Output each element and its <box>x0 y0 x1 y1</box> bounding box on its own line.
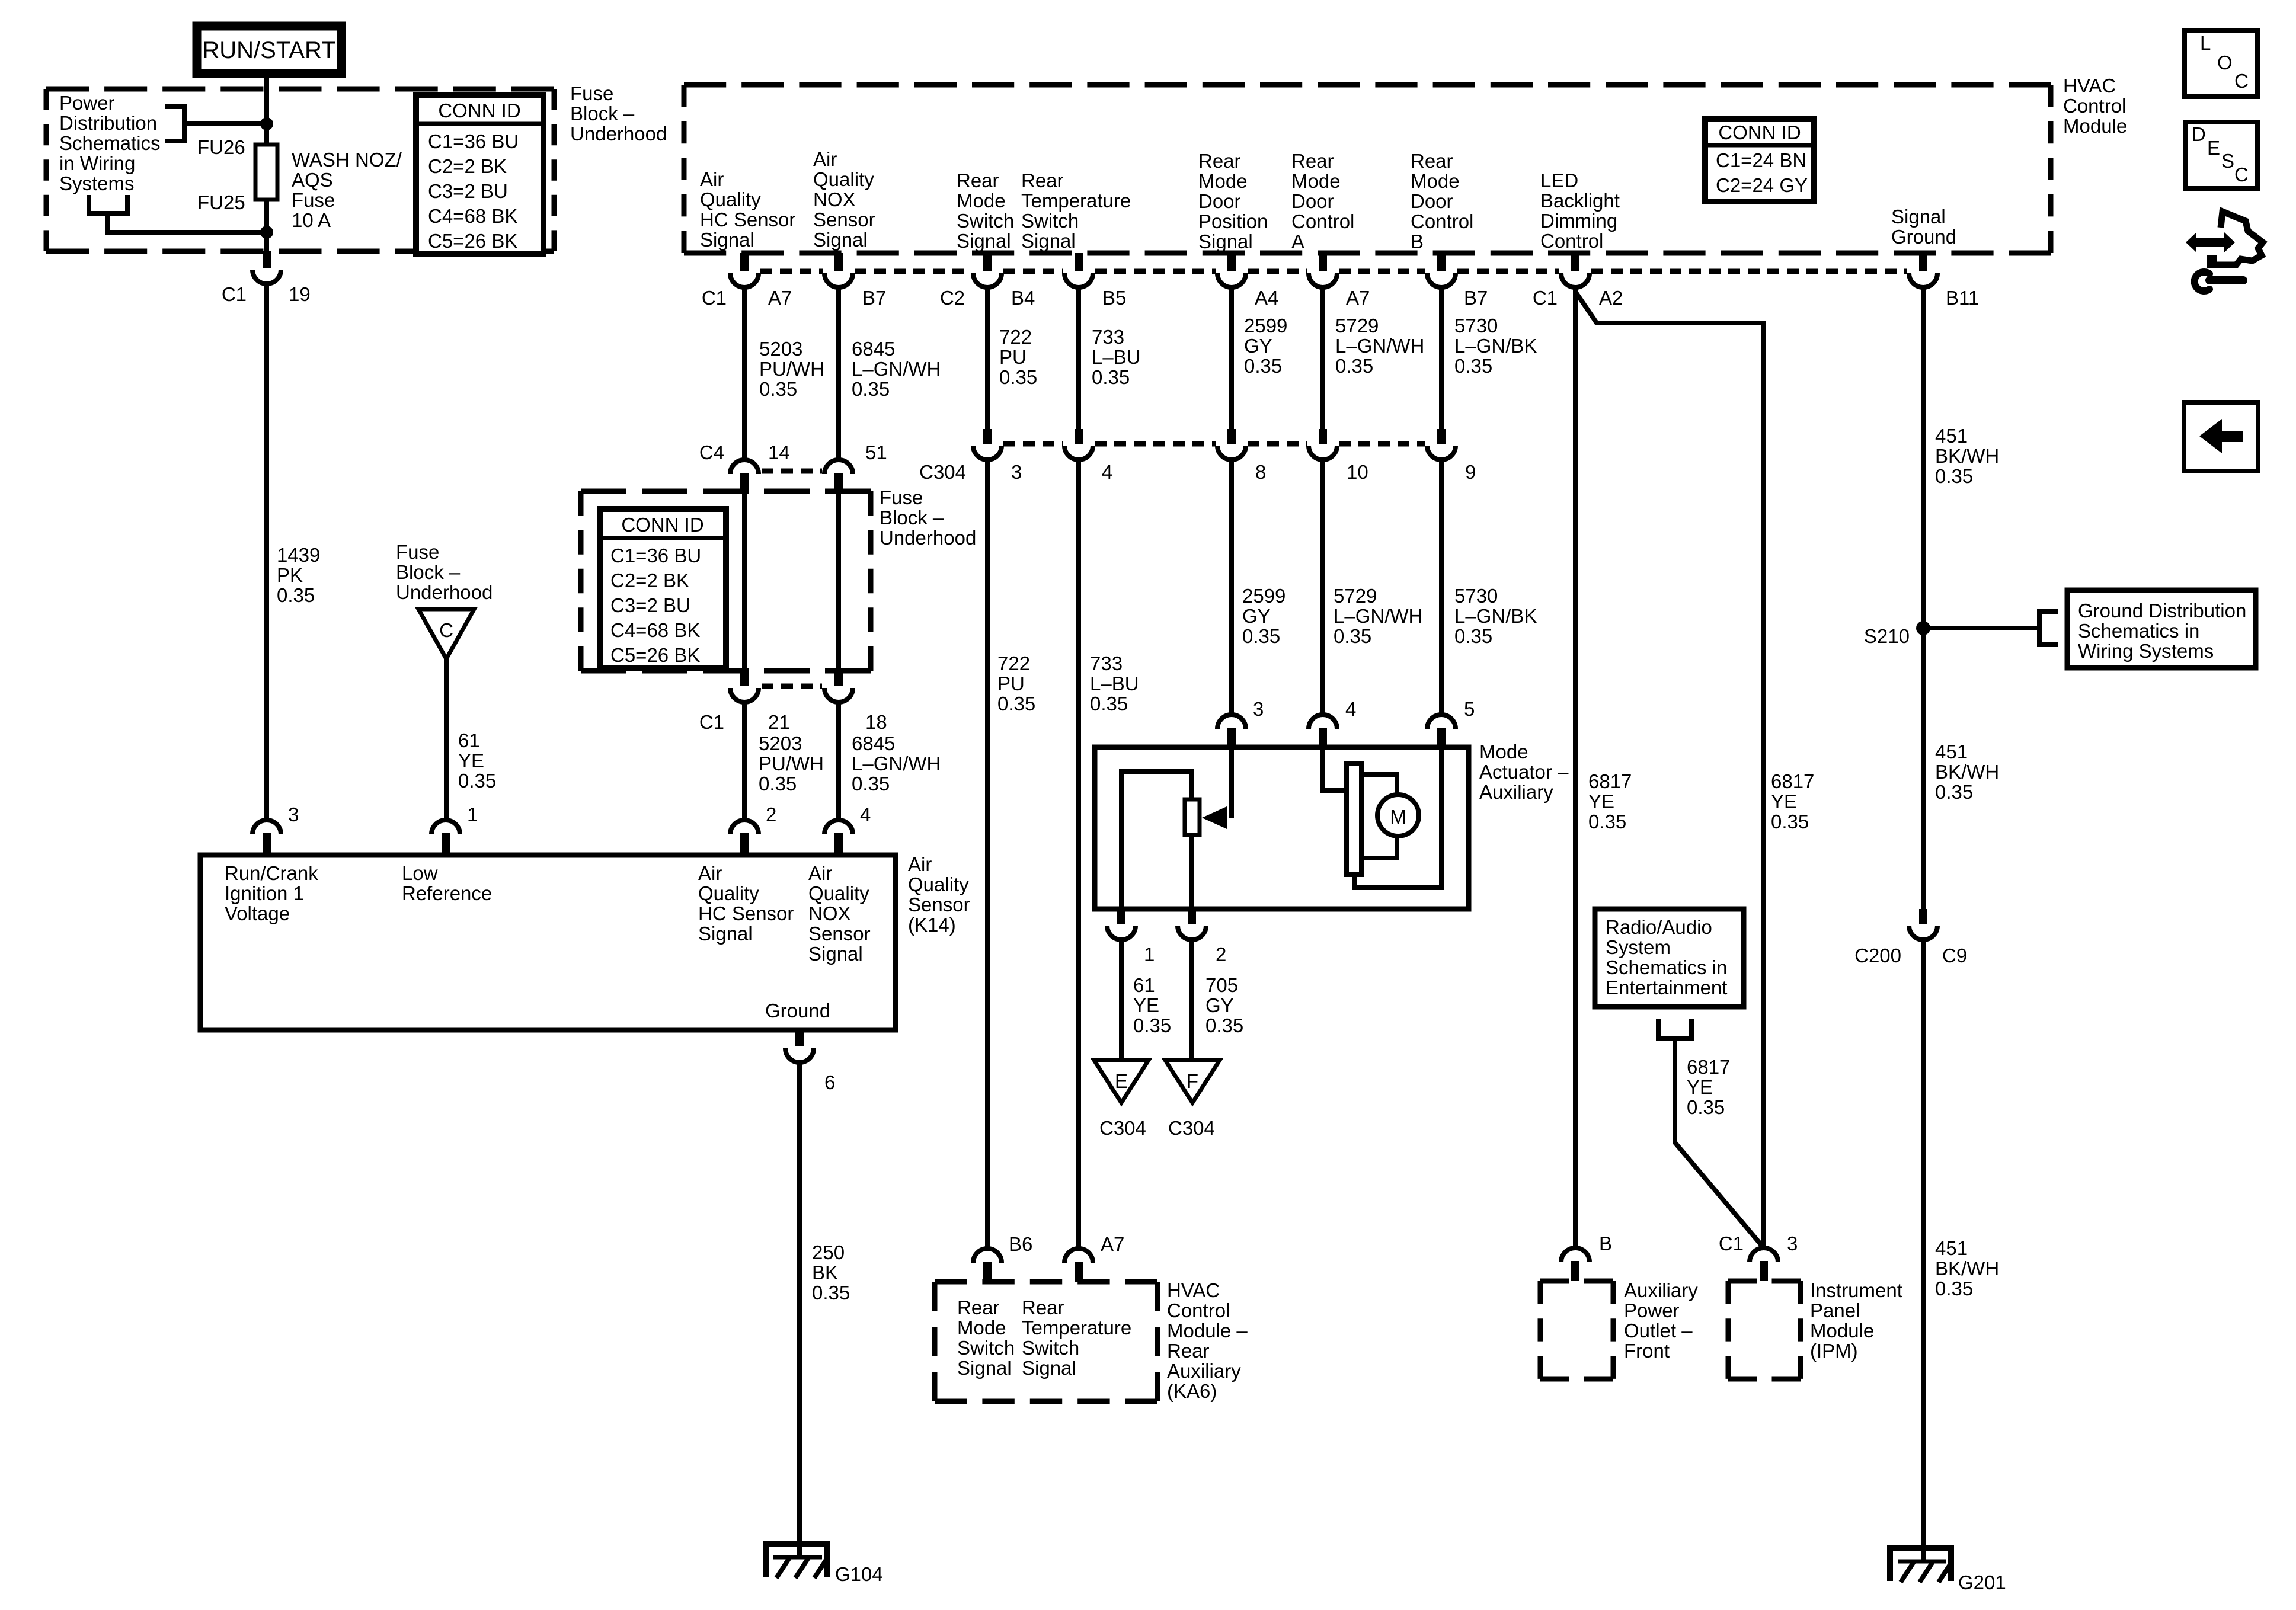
connector pin 5 (mode actuator) <box>1427 715 1456 747</box>
svg-text:S210: S210 <box>1864 625 1910 647</box>
wire S210 to ground distribution bracket <box>1923 626 2039 630</box>
svg-text:18: 18 <box>865 711 887 733</box>
bracket ground distribution <box>2039 612 2058 645</box>
svg-text:B11: B11 <box>1946 287 1979 309</box>
svg-text:C4: C4 <box>699 441 724 463</box>
LOC icon box <box>2185 30 2257 97</box>
connector row C4 dashes <box>762 469 822 474</box>
svg-text:4: 4 <box>1102 461 1112 483</box>
svg-text:B5: B5 <box>1102 287 1126 309</box>
connector row C304 dashes <box>1003 441 1425 447</box>
svg-text:B: B <box>1599 1233 1612 1254</box>
motor M <box>1377 795 1419 836</box>
connector B6 (KA6) <box>973 1249 1002 1282</box>
svg-text:8: 8 <box>1255 461 1266 483</box>
connector pin 4 (K14 NOX signal) <box>824 820 853 855</box>
svg-text:3: 3 <box>1253 698 1264 720</box>
svg-text:4: 4 <box>1345 698 1356 720</box>
svg-text:B7: B7 <box>1464 287 1488 309</box>
svg-text:C: C <box>439 619 453 641</box>
connector pin 6 (K14 ground) <box>785 1030 814 1062</box>
junction dot <box>260 117 273 130</box>
svg-text:C1: C1 <box>1533 287 1558 309</box>
note Ground Distribution Schematics in Wiring Systems <box>2067 590 2256 668</box>
wire 451 BK/WH lower <box>1921 940 1926 1563</box>
wire 6817 YE left branch <box>1573 287 1578 1249</box>
svg-text:C: C <box>2234 70 2249 92</box>
junction dot 2 <box>260 226 273 239</box>
CONN ID table (fuse block 1) <box>416 95 543 254</box>
fuse block underhood (dashed box) <box>46 89 554 251</box>
svg-text:G104: G104 <box>835 1563 883 1585</box>
svg-text:3: 3 <box>1011 461 1022 483</box>
svg-text:C200: C200 <box>1854 945 1901 966</box>
connector C304 pin 9 <box>1427 429 1456 460</box>
svg-text:C1: C1 <box>702 287 727 309</box>
svg-text:E: E <box>2207 137 2220 159</box>
wire 2599 GY upper <box>1229 287 1234 429</box>
svg-text:10: 10 <box>1347 461 1368 483</box>
svg-text:S: S <box>2221 150 2234 172</box>
svg-text:A7: A7 <box>768 287 792 309</box>
svg-text:2: 2 <box>1216 943 1226 965</box>
note Radio/Audio System Schematics in Entertainment <box>1595 909 1744 1007</box>
svg-text:21: 21 <box>768 711 790 733</box>
wire 5729 L-GN/WH lower <box>1320 460 1325 716</box>
bracket to power distribution note <box>165 107 184 141</box>
wire 2599 GY lower <box>1229 460 1234 716</box>
wire 722 PU lower <box>985 460 990 1250</box>
svg-text:CONN ID: CONN ID <box>438 100 520 121</box>
ground G201 <box>1890 1548 1952 1582</box>
svg-text:D: D <box>2192 123 2206 145</box>
HVAC control module (dashed box) <box>684 85 2051 253</box>
svg-text:B7: B7 <box>862 287 886 309</box>
HVAC connector dashed row <box>760 269 1907 274</box>
svg-text:A7: A7 <box>1101 1233 1124 1255</box>
wire 5729 L-GN/WH upper <box>1320 287 1325 429</box>
svg-text:9: 9 <box>1465 461 1476 483</box>
wire 722 PU upper <box>985 287 990 429</box>
svg-text:51: 51 <box>865 441 887 463</box>
connector pin 1 (mode actuator out) <box>1107 909 1136 940</box>
svg-text:C2: C2 <box>940 287 965 309</box>
connector HVAC pin B4 (rear mode switch) <box>973 253 1002 287</box>
connector pin 2 (K14 HC signal) <box>730 820 759 855</box>
DESC icon box <box>2185 122 2257 188</box>
wire 705 GY to C304 F <box>1189 940 1194 1060</box>
CONN ID table (fuse block 2) <box>600 509 726 668</box>
wire 451 BK/WH upper <box>1921 287 1926 909</box>
wire bracket to main <box>184 121 267 126</box>
connector HVAC pin B7 (NOX sensor) <box>824 253 853 287</box>
svg-text:A2: A2 <box>1599 287 1623 309</box>
svg-text:6: 6 <box>824 1071 835 1093</box>
connector HVAC pin A7 (door control A) <box>1309 253 1337 287</box>
connector HVAC pin A7 (HC sensor) <box>730 253 759 287</box>
connector B (aux power outlet) <box>1561 1248 1590 1281</box>
svg-text:C9: C9 <box>1942 945 1967 966</box>
mode actuator auxiliary box <box>1095 747 1469 909</box>
connector pin 3 (mode actuator) <box>1217 715 1246 747</box>
connector pin 3 (K14 Run/Crank) <box>252 820 281 855</box>
svg-text:C1=36 BUC2=2 BKC3=2 BUC4=68 BK: C1=36 BUC2=2 BKC3=2 BUC4=68 BKC5=26 BK <box>610 545 701 666</box>
HVAC control module rear auxiliary KA6 (dashed box) <box>935 1282 1157 1401</box>
wire lower bracket to main <box>108 213 267 232</box>
svg-text:4: 4 <box>860 804 871 825</box>
wire pin 4 to actuator bar <box>1323 747 1347 790</box>
svg-text:14: 14 <box>768 441 790 463</box>
reference triangle F <box>1165 1060 1220 1103</box>
wire 733 L-BU upper <box>1076 287 1081 429</box>
svg-text:B4: B4 <box>1011 287 1035 309</box>
wires through fuse block 2 <box>742 491 747 671</box>
svg-text:C304: C304 <box>919 461 966 483</box>
svg-text:CONN ID: CONN ID <box>1718 121 1801 143</box>
connector C1 pin 3 (IPM) <box>1750 1248 1778 1281</box>
svg-text:1: 1 <box>467 804 478 825</box>
splice S210 <box>1916 621 1930 635</box>
svg-text:B6: B6 <box>1009 1233 1032 1255</box>
connector row C1/21/18 dashes <box>762 684 822 689</box>
wire 6817 YE from radio note <box>1675 1038 1764 1248</box>
svg-text:A4: A4 <box>1255 287 1278 309</box>
ground G104 <box>766 1544 827 1578</box>
wire 61 YE to C304 E <box>1119 940 1124 1060</box>
wiper wire from pin 3 <box>1229 747 1234 818</box>
instrument panel module IPM (dashed box) <box>1728 1281 1801 1379</box>
lower bracket from note <box>89 195 127 213</box>
svg-text:C1: C1 <box>699 711 724 733</box>
wire 61 YE to low reference <box>444 659 449 820</box>
connector HVAC pin B11 (signal ground) <box>1909 253 1937 287</box>
svg-text:O: O <box>2217 52 2233 73</box>
connector pin 2 (mode actuator out) <box>1178 909 1206 940</box>
wire 6817 YE right branch (diagonal + horizontal + drop) <box>1575 292 1764 1248</box>
CONN ID table (HVAC) <box>1705 119 1814 201</box>
auxiliary power outlet front (dashed box) <box>1540 1281 1613 1379</box>
connector C1 pin 18 <box>824 671 853 702</box>
connector pin 4 (mode actuator) <box>1309 715 1337 747</box>
connector C1 pin 21 <box>730 671 759 702</box>
svg-text:2: 2 <box>766 804 776 825</box>
svg-text:C1: C1 <box>222 283 247 305</box>
svg-text:E: E <box>1115 1070 1128 1092</box>
RUN/START ignition feed box <box>197 26 341 73</box>
double arrow + path + wrench icon <box>2186 212 2263 291</box>
svg-text:C1=36 BUC2=2 BKC3=2 BUC4=68 BK: C1=36 BUC2=2 BKC3=2 BUC4=68 BKC5=26 BK <box>428 130 519 252</box>
connector C4 pin 14 <box>730 460 759 491</box>
svg-text:C304: C304 <box>1099 1117 1146 1139</box>
wire 6845 L-GN/WH lower <box>836 702 841 820</box>
actuator drive bar <box>1347 764 1361 875</box>
connector pin 1 (K14 Low Reference) <box>431 820 460 855</box>
wire 5730 L-GN/BK upper <box>1439 287 1444 429</box>
svg-text:C304: C304 <box>1168 1117 1215 1139</box>
wire RUN/START to fuse block <box>264 73 269 145</box>
svg-text:M: M <box>1390 806 1406 828</box>
wire pin 5 to bar bottom <box>1354 747 1441 888</box>
connector C1 pin 19 <box>252 251 281 284</box>
potentiometer feed wire <box>1121 772 1192 909</box>
svg-text:5: 5 <box>1464 698 1475 720</box>
svg-text:Ground: Ground <box>765 1000 830 1022</box>
wire fuse to box bottom <box>264 200 269 251</box>
wire 1439 PK <box>264 284 269 820</box>
wire 6845 L-GN/WH upper <box>836 287 841 460</box>
svg-text:3: 3 <box>1787 1233 1798 1254</box>
potentiometer element <box>1185 799 1200 835</box>
svg-text:1: 1 <box>1144 943 1155 965</box>
connector HVAC pin A4 (door position) <box>1217 253 1246 287</box>
reference triangle C <box>418 609 474 659</box>
connector C304 pin 4 <box>1064 429 1093 460</box>
connector HVAC pin B7 (door control B) <box>1427 253 1456 287</box>
connector C304 pin 8 <box>1217 429 1246 460</box>
motor top wire <box>1361 774 1397 795</box>
svg-text:3: 3 <box>288 804 299 825</box>
potentiometer lower wire <box>1189 835 1194 909</box>
svg-text:A7: A7 <box>1346 287 1370 309</box>
svg-text:C1: C1 <box>1719 1233 1744 1254</box>
bracket below radio note <box>1658 1019 1691 1038</box>
connector C304 pin 10 <box>1309 429 1337 460</box>
connector A7 (KA6) <box>1064 1249 1093 1282</box>
wire 5203 PU/WH upper <box>742 287 747 460</box>
svg-text:CONN ID: CONN ID <box>621 514 703 536</box>
svg-text:RUN/START: RUN/START <box>202 37 335 63</box>
svg-text:C: C <box>2234 164 2249 185</box>
wire 5203 PU/WH lower <box>742 702 747 820</box>
svg-text:L: L <box>2200 32 2211 54</box>
svg-text:Radio/AudioSystemSchematics in: Radio/AudioSystemSchematics inEntertainm… <box>1606 916 1727 998</box>
back arrow icon box <box>2184 402 2258 471</box>
svg-text:FU26: FU26 <box>197 136 245 158</box>
wire 733 L-BU lower <box>1076 460 1081 1250</box>
svg-text:F: F <box>1187 1070 1198 1092</box>
fuse block underhood 2 (dashed box) <box>581 491 871 671</box>
reference triangle E <box>1094 1060 1149 1103</box>
wire 5730 L-GN/BK lower <box>1439 460 1444 716</box>
wire 250 BK <box>797 1062 802 1558</box>
air quality sensor K14 box <box>200 855 896 1030</box>
motor bottom wire <box>1361 836 1397 858</box>
connector C304 pin 3 <box>973 429 1002 460</box>
svg-text:19: 19 <box>289 283 311 305</box>
svg-text:G201: G201 <box>1958 1571 2006 1593</box>
connector C200 pin C9 <box>1909 909 1937 940</box>
connector HVAC pin B5 (rear temp switch) <box>1064 253 1093 287</box>
connector HVAC pin A2 (LED dimming) <box>1561 253 1590 287</box>
fuse WASH NOZ/AQS 10A symbol <box>255 145 277 200</box>
connector C4 pin 51 <box>824 460 853 491</box>
svg-text:FU25: FU25 <box>197 191 245 213</box>
wiper arrow <box>1202 806 1227 829</box>
